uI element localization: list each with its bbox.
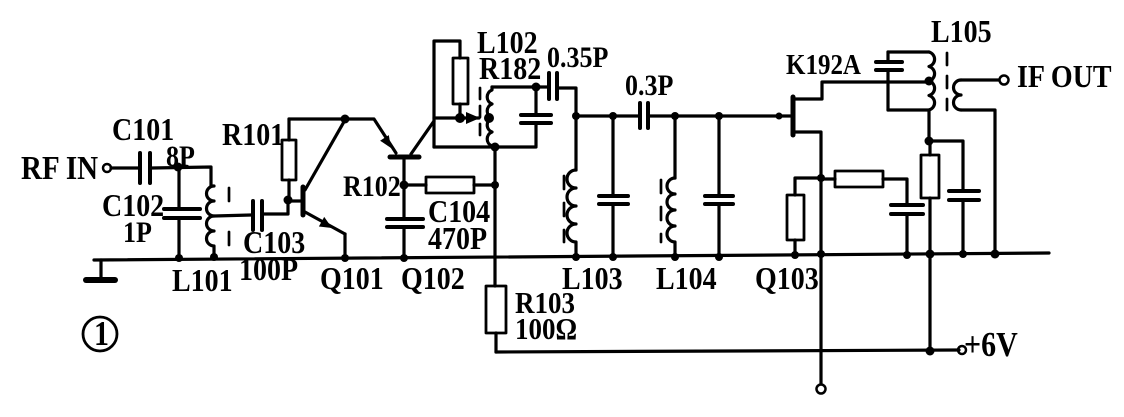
svg-text:0.35P: 0.35P <box>547 41 608 74</box>
svg-text:Q103: Q103 <box>755 260 819 296</box>
svg-text:+6V: +6V <box>964 325 1018 363</box>
svg-text:K192A: K192A <box>786 48 861 80</box>
svg-text:1: 1 <box>94 314 109 352</box>
svg-text:100P: 100P <box>239 251 298 287</box>
svg-text:8P: 8P <box>166 140 195 173</box>
svg-text:470P: 470P <box>428 220 487 256</box>
svg-text:L104: L104 <box>656 260 717 296</box>
svg-text:R102: R102 <box>343 170 401 203</box>
svg-text:RF IN: RF IN <box>21 149 98 186</box>
svg-text:Q101: Q101 <box>320 260 384 296</box>
svg-text:1P: 1P <box>123 216 152 249</box>
svg-text:0.3P: 0.3P <box>625 69 673 102</box>
svg-text:Q102: Q102 <box>401 260 465 296</box>
svg-text:C101: C101 <box>112 111 174 147</box>
svg-text:R101: R101 <box>222 116 284 152</box>
svg-text:IF OUT: IF OUT <box>1017 58 1112 94</box>
svg-text:100Ω: 100Ω <box>515 312 577 346</box>
svg-text:L105: L105 <box>931 13 992 49</box>
svg-text:L101: L101 <box>172 262 233 298</box>
svg-text:R182: R182 <box>479 50 541 86</box>
